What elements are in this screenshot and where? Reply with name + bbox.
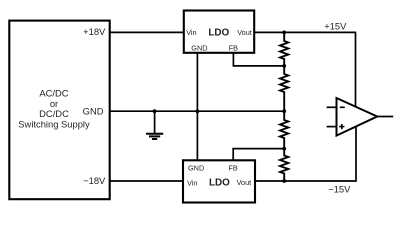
op-amp inverting input stub [327, 106, 337, 108]
resistor R1 top divider upper [280, 32, 288, 66]
svg-text:FB: FB [229, 43, 238, 52]
ground [146, 111, 163, 139]
node -15V divider tap [282, 179, 286, 183]
resistor R3 bottom divider upper [280, 111, 288, 148]
svg-text:GND: GND [191, 43, 207, 52]
LDO U2 box (bottom) [183, 160, 255, 202]
wire -15V rise to op-amp V- [355, 120, 357, 182]
svg-text:+18V: +18V [83, 26, 106, 37]
svg-text:Vin: Vin [186, 28, 196, 37]
wire top LDO FB to divider midpoint [233, 53, 284, 66]
op-amp non-inverting input stub [327, 126, 337, 128]
node bottom FB junction [282, 147, 286, 151]
resistor R4 bottom divider lower [280, 149, 288, 181]
svg-text:AC/DC: AC/DC [39, 87, 68, 98]
wire bottom LDO Vout rail to -15V corner [255, 180, 357, 182]
node ground tap junction [153, 109, 157, 113]
wire op-amp output [377, 116, 393, 118]
supply box AC/DC [9, 21, 109, 200]
svg-text:FB: FB [228, 163, 237, 172]
svg-text:DC/DC: DC/DC [39, 108, 69, 119]
svg-text:LDO: LDO [209, 178, 230, 189]
op-amp U3 [337, 98, 378, 136]
node +15V divider tap [282, 31, 286, 35]
wire top LDO Vout rail to +15V corner [254, 31, 356, 33]
svg-text:−18V: −18V [83, 175, 106, 186]
svg-text:or: or [50, 98, 58, 109]
svg-text:LDO: LDO [208, 28, 229, 39]
svg-text:+15V: +15V [324, 20, 347, 31]
node top FB junction [282, 64, 286, 68]
wire bottom LDO FB to divider midpoint [233, 149, 284, 161]
resistor R2 top divider lower [280, 66, 288, 111]
svg-text:Vin: Vin [187, 178, 197, 187]
op-amp plus mark [339, 124, 344, 129]
wire +18V from supply to LDO Vin [109, 31, 185, 33]
svg-text:Vout: Vout [237, 28, 252, 37]
wire -18V from supply to LDO Vin [109, 180, 184, 182]
node GND divider junction [282, 109, 286, 113]
svg-text:Vout: Vout [237, 178, 252, 187]
svg-text:Switching Supply: Switching Supply [18, 119, 90, 130]
op-amp minus mark [340, 106, 345, 108]
svg-text:−15V: −15V [328, 184, 351, 195]
svg-text:GND: GND [188, 163, 204, 172]
LDO U1 box (top) [184, 11, 254, 53]
wire LDO GND pins vertical [196, 53, 198, 161]
supply box text [18, 87, 90, 129]
node LDO GND junction [196, 109, 200, 113]
wire GND bus from supply to divider [109, 110, 284, 112]
svg-text:GND: GND [83, 105, 104, 116]
wire +15V drop to op-amp V+ [355, 32, 357, 112]
